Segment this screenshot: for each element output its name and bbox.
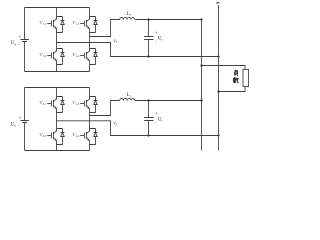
svg-text:+: +: [155, 30, 158, 35]
svg-text:+: +: [19, 115, 22, 120]
svg-text:+: +: [19, 34, 22, 39]
svg-text:+: +: [155, 111, 158, 116]
